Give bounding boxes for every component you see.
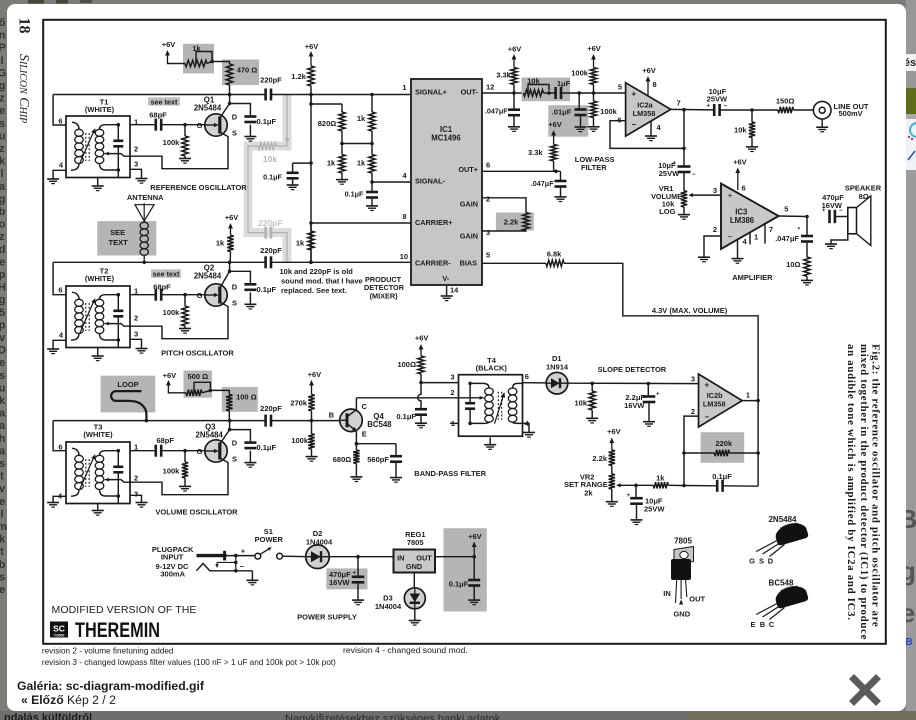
resistor 3.3k (511, 68, 517, 85)
secondary tap (105, 478, 109, 482)
grey highlight box: 100 ohm mod (222, 387, 258, 412)
svg-text:o: o (0, 219, 6, 231)
wire 1.2k to rail (310, 86, 312, 95)
svg-text:6: 6 (58, 442, 62, 451)
svg-text:D: D (0, 345, 6, 357)
svg-text:BAND-PASS FILTER: BAND-PASS FILTER (414, 469, 486, 478)
resistor 10k (slope) (591, 383, 593, 391)
svg-text:68pF: 68pF (156, 436, 174, 445)
potentiometer VR2 2k (609, 474, 615, 489)
svg-text:d: d (0, 244, 5, 256)
svg-text:BC548: BC548 (367, 420, 392, 429)
svg-text:(MIXER): (MIXER) (370, 291, 399, 300)
resistor 6.8k (546, 260, 564, 266)
svg-text:h: h (0, 433, 6, 445)
svg-text:B: B (905, 637, 912, 648)
core (dashed) (85, 133, 87, 161)
VR2 wiper (619, 484, 636, 486)
ground (10k) (746, 146, 758, 148)
svg-text:IN: IN (397, 553, 404, 562)
svg-text:a: a (0, 445, 6, 457)
ground (0.1uF Q1) (244, 136, 256, 138)
capacitor 560pF (395, 444, 397, 457)
wire out+ (pin6) (482, 170, 561, 172)
svg-text:POWER SUPPLY: POWER SUPPLY (297, 613, 357, 622)
magazine name Silicon Chip (16, 54, 31, 123)
svg-text:+6V: +6V (548, 120, 562, 129)
resistor 820 ohm (341, 104, 343, 112)
svg-text:E: E (362, 430, 367, 439)
svg-text:k: k (0, 156, 6, 168)
wire 100ohm to T4 pin3 (421, 382, 459, 384)
svg-text:2N5484: 2N5484 (194, 272, 222, 281)
svg-text:AMPLIFIER: AMPLIFIER (732, 273, 773, 282)
capacitor 68pF (pitch) (155, 289, 158, 301)
svg-text:0.1μF: 0.1μF (396, 412, 416, 421)
transistor Q1 2N5484 (205, 114, 227, 136)
svg-text:GND: GND (673, 610, 690, 619)
IC1 MC1496 product detector (411, 79, 482, 285)
wire Q2 drain (220, 271, 230, 288)
ground (0.1uF Q2) (244, 303, 256, 305)
capacitor 0.1uF (feedback) (684, 485, 717, 487)
svg-text:g: g (0, 80, 5, 92)
svg-text:Nagykifizetésekhez szükséges b: Nagykifizetésekhez szükséges banki adato… (285, 713, 501, 720)
svg-text:470 Ω: 470 Ω (237, 66, 258, 75)
svg-text:.047μF: .047μF (485, 107, 508, 116)
svg-text:k: k (0, 395, 6, 407)
wire T3 pin1 to 68pF (130, 450, 156, 452)
svg-text:t: t (0, 471, 4, 483)
wire T1 pin1 to 68pF (130, 124, 156, 126)
resistor 100k (Q2 gate) (184, 295, 186, 306)
wire REG1 out to +6V (435, 556, 474, 558)
wire T4 pin6 to D1 (523, 382, 547, 384)
svg-text:−: − (692, 172, 696, 178)
pot 10k (lowpass mod) (524, 90, 544, 96)
resistor 100k (vol divider) (311, 421, 313, 434)
wire rail drop to T1 pin6 (53, 95, 66, 126)
transistor Q3 2N5484 (205, 440, 227, 462)
capacitor 2.2uF 16VW (647, 384, 649, 397)
svg-text:+: + (241, 546, 246, 555)
svg-text:C: C (362, 402, 368, 411)
svg-text:68pF: 68pF (153, 282, 171, 291)
diode D1 1N914 (546, 372, 568, 394)
wire Q4 emitter (355, 431, 357, 444)
svg-text:OUT-: OUT- (461, 88, 479, 97)
wire out- (pin12) rail (482, 92, 522, 94)
winding (95, 299, 104, 306)
winding (75, 299, 84, 306)
ground (100k vol) (306, 456, 318, 458)
svg-text:revision 2 - volume finetuning: revision 2 - volume finetuning added (42, 647, 174, 656)
ghost capacitor 220pF (old) (264, 227, 267, 239)
pin 4 ground (737, 239, 739, 258)
svg-text:3: 3 (134, 159, 138, 168)
svg-text:SLOPE DETECTOR: SLOPE DETECTOR (598, 365, 667, 374)
pin 5 output wire (779, 215, 807, 218)
capacitor 0.1uF (Q1 drain) (244, 115, 256, 118)
core (dashed) (85, 303, 87, 331)
wire T1 bottom ground (97, 178, 99, 187)
node carrier- (309, 261, 313, 265)
ground (100k Q3) (179, 485, 191, 487)
svg-text:220pF: 220pF (260, 246, 282, 255)
wire drop to T2 pin 6 (53, 262, 66, 294)
tuning slug arrow (80, 130, 95, 163)
wire 68pF to gate Q1 (161, 124, 205, 126)
svg-text:68pF: 68pF (149, 110, 167, 119)
diode D2 1N4004 (306, 545, 330, 569)
svg-text:l: l (0, 168, 3, 180)
svg-text:IN: IN (663, 589, 671, 598)
ground (speaker) (831, 234, 848, 244)
capacitor 1uF (554, 87, 557, 99)
wire plug - (236, 570, 253, 572)
ground (1k) (336, 179, 348, 181)
op-amp IC2a LM358 (626, 83, 671, 136)
ground (0.1uF) (366, 205, 378, 207)
regulator REG1 7805 (394, 550, 436, 573)
SC logo (50, 622, 68, 638)
svg-text:g: g (0, 193, 5, 205)
svg-text:100 Ω: 100 Ω (236, 392, 257, 401)
node gate/100k (183, 449, 187, 453)
7805 TO-220 package (674, 547, 694, 565)
svg-text:16VW: 16VW (329, 578, 350, 587)
ghost junction dot (285, 138, 289, 142)
svg-text:0.1μF: 0.1μF (449, 580, 469, 589)
svg-text:2.2k: 2.2k (504, 218, 519, 227)
transistor Q4 BC548 (340, 409, 363, 432)
svg-text:1.2k: 1.2k (291, 72, 306, 81)
wire bias pin5 (482, 262, 546, 264)
svg-text:220k: 220k (715, 439, 733, 448)
ground (10k slope) (586, 417, 598, 419)
svg-text:p: p (0, 269, 6, 281)
svg-text:S: S (232, 454, 237, 463)
wire to speaker (835, 216, 848, 218)
wire T2 pin4 to ground (53, 340, 66, 349)
svg-text:(WHITE): (WHITE) (85, 274, 115, 283)
wire output vertical (757, 401, 759, 487)
secondary tap (105, 152, 109, 156)
svg-text:0.1μF: 0.1μF (345, 190, 364, 199)
bottom strip webpage fragments (0, 711, 916, 720)
svg-text:8: 8 (653, 80, 657, 89)
svg-text:b: b (0, 206, 6, 218)
svg-text:7805: 7805 (407, 538, 424, 547)
wire mid node (342, 143, 372, 145)
svg-text:10k and 220pF is old: 10k and 220pF is old (280, 267, 354, 276)
svg-text:2: 2 (486, 195, 490, 204)
svg-text:1N4004: 1N4004 (375, 602, 402, 611)
capacitor 0.1uF (out) (473, 557, 475, 580)
svg-text:+6V: +6V (305, 42, 319, 51)
capacitor .047uF (out+) (560, 171, 562, 181)
svg-text:+: + (353, 571, 357, 577)
wire signal- (372, 181, 411, 183)
wire inverting input loop (684, 416, 699, 485)
wire T4 bottom ground (489, 437, 491, 444)
VR1 wiper (692, 194, 722, 196)
capacitor 0.1uF (bandpass) (415, 408, 427, 411)
svg-text:D: D (768, 557, 774, 566)
svg-text:6: 6 (58, 285, 62, 294)
svg-text:+6V: +6V (225, 213, 239, 222)
svg-text:I: I (0, 55, 3, 67)
plug internal link (235, 556, 237, 571)
tuning slug arrow (80, 456, 95, 489)
wire plug + (227, 555, 255, 557)
svg-text:SIGNAL+: SIGNAL+ (415, 88, 447, 97)
resistor 100k (Q1 gate) (184, 125, 186, 136)
antenna symbol (135, 205, 154, 221)
node 470/rail (228, 93, 232, 97)
svg-text:v: v (0, 332, 6, 344)
resistor 100k (top) (590, 68, 596, 85)
plug tip bar (197, 554, 227, 557)
ground (470uF) (352, 599, 364, 601)
wire IC2a output (671, 108, 714, 111)
svg-text:mixed together in the product: mixed together in the product detector (… (858, 344, 870, 640)
svg-text:a: a (0, 420, 6, 432)
svg-text:Galéria: sc-diagram-modified.g: Galéria: sc-diagram-modified.gif (17, 679, 205, 693)
svg-text:t: t (0, 546, 4, 558)
ground (.01uF) (575, 126, 587, 128)
svg-text:ANTENNA: ANTENNA (127, 193, 164, 202)
secondary tap (105, 322, 109, 326)
svg-text:1: 1 (134, 442, 138, 451)
winding leads (72, 292, 79, 299)
wire Q1 drain to 0.1uF (230, 104, 251, 117)
svg-text:1: 1 (402, 83, 406, 92)
transformer T2 (66, 286, 130, 348)
svg-text:25VW: 25VW (707, 95, 728, 104)
svg-text:10k: 10k (263, 154, 277, 164)
svg-text:u: u (0, 130, 5, 142)
svg-text:s: s (0, 370, 5, 382)
resistor 500 ohm (mod) (186, 390, 202, 396)
wire 4.3V max volume (564, 263, 758, 400)
svg-text:SEE: SEE (110, 228, 125, 237)
svg-text:C: C (769, 620, 775, 629)
svg-text:+6V: +6V (642, 66, 656, 75)
svg-text:4.3V (MAX. VOLUME): 4.3V (MAX. VOLUME) (652, 306, 728, 315)
pin 1 stub (749, 232, 751, 244)
svg-text:+6V: +6V (587, 44, 601, 53)
svg-text:7: 7 (769, 225, 773, 234)
svg-text:+6V: +6V (162, 40, 176, 49)
wire T3 pin3 to ground (130, 495, 142, 502)
svg-text:z: z (0, 231, 5, 243)
svg-text:0.1μF: 0.1μF (712, 472, 732, 481)
ground (680) (350, 476, 362, 478)
resistor 1k (slope out) (636, 484, 654, 486)
wire carrier+ (311, 222, 411, 224)
grey highlight box: 220k mod (701, 432, 745, 463)
svg-text:MODIFIED VERSION OF THE: MODIFIED VERSION OF THE (52, 604, 197, 616)
wire Q3 drain to 0.1uF (230, 430, 251, 443)
right strip webpage fragments (906, 0, 916, 56)
grey highlight box: 1k trimmer mod (183, 44, 214, 74)
svg-text:+: + (626, 493, 630, 499)
capacitor 470uF 16VW (357, 557, 359, 577)
svg-text:.047μF: .047μF (775, 234, 799, 243)
svg-text:−: − (705, 413, 710, 422)
svg-text:1k: 1k (216, 239, 225, 248)
svg-text:+: + (632, 89, 637, 98)
svg-text:S: S (759, 557, 764, 566)
svg-text:3: 3 (134, 489, 138, 498)
wire hop over collector (418, 383, 421, 410)
svg-text:REFERENCE OSCILLATOR: REFERENCE OSCILLATOR (150, 183, 247, 192)
svg-text:e: e (0, 584, 5, 596)
pin 14 / V- ground (446, 285, 448, 296)
wire to 1uF (544, 92, 556, 94)
capacitor .01uF (mod) (578, 93, 580, 110)
svg-text:2: 2 (134, 313, 138, 322)
wire emitter to 560pF (356, 443, 396, 445)
svg-text:VOLUME OSCILLATOR: VOLUME OSCILLATOR (155, 508, 238, 517)
grey highlight box: 500 ohm mod (184, 371, 213, 398)
svg-text:e: e (0, 496, 5, 508)
wire Q3 drain (220, 430, 230, 444)
core (dashed) (85, 459, 87, 487)
wire S1 to D2 (283, 555, 306, 557)
svg-text:100k: 100k (600, 107, 618, 116)
svg-text:THEREMIN: THEREMIN (75, 618, 160, 642)
svg-text:−: − (240, 562, 245, 571)
svg-text:a: a (0, 408, 6, 420)
svg-text:SC: SC (53, 624, 65, 634)
schematic border frame (43, 20, 886, 644)
ground (VR1) (683, 207, 685, 215)
capacitor 220pF (vol coupling) (264, 415, 267, 427)
pin 4 ground (650, 121, 652, 136)
ground (.047uF out+) (555, 196, 567, 198)
svg-text:e: e (0, 357, 5, 369)
svg-text:3: 3 (713, 186, 717, 195)
ground (connector) (821, 119, 823, 127)
wire signal+ rail (53, 94, 265, 96)
svg-text:3: 3 (691, 375, 695, 384)
svg-text:6.8k: 6.8k (547, 250, 562, 259)
ground (10 ohm) (801, 279, 813, 281)
svg-text:INPUT: INPUT (161, 552, 184, 561)
svg-text:GND: GND (406, 562, 422, 571)
svg-text:OUT: OUT (416, 553, 432, 562)
capacitor 0.1uF (signal-) (371, 182, 373, 192)
svg-text:5: 5 (784, 204, 788, 213)
svg-text:e: e (0, 256, 5, 268)
node 270k/rail (310, 419, 314, 423)
ground (10uF VR2) (631, 519, 643, 521)
ground (2.2uF) (643, 421, 655, 423)
wire 1k to 470 (207, 62, 230, 65)
svg-text:1k: 1k (656, 473, 665, 482)
ground (100k) (588, 126, 600, 128)
svg-text:z: z (0, 93, 5, 105)
wire T2 pin1 to 68pF (130, 294, 156, 296)
wire T4 pin1 stub (450, 422, 459, 424)
svg-text:BIAS: BIAS (460, 259, 478, 268)
transformer T4 (459, 375, 523, 437)
svg-text:+: + (706, 104, 710, 110)
wire Q3 source (130, 458, 228, 495)
grey highlight box: see text T1 (148, 97, 180, 105)
svg-text:E: E (750, 620, 755, 629)
wire 1k right top (371, 95, 373, 113)
transformer T1 (66, 116, 130, 178)
node gate/100k (183, 123, 187, 127)
tuning slug arrow (80, 300, 95, 333)
wire T1 pin3 to ground (130, 169, 142, 178)
svg-text:2N5484: 2N5484 (194, 104, 222, 113)
svg-text:8Ω: 8Ω (859, 192, 869, 201)
svg-text:500mV: 500mV (839, 109, 863, 118)
wire cap to VR1 (683, 173, 685, 191)
wire to connector (794, 109, 814, 111)
resistor 100k (Q3 gate) (184, 451, 186, 462)
speaker (848, 208, 857, 234)
wire collector to T4 pin2 (356, 397, 458, 399)
close button X (852, 677, 879, 704)
transistor Q2 2N5484 (205, 284, 227, 306)
svg-text:ő: ő (0, 17, 6, 29)
svg-text:POWER: POWER (255, 535, 284, 544)
grey highlight box: 470uF 16VW mod (326, 568, 367, 589)
svg-text:3: 3 (134, 329, 138, 338)
svg-text:25VW: 25VW (644, 505, 665, 514)
svg-text:D: D (232, 438, 238, 447)
winding (75, 455, 84, 462)
svg-text:H: H (0, 282, 6, 294)
svg-text:220pF: 220pF (260, 404, 282, 413)
svg-text:7805: 7805 (674, 537, 692, 546)
svg-text:p: p (0, 319, 6, 331)
svg-text:(WHITE): (WHITE) (85, 105, 115, 114)
svg-text:G: G (0, 67, 6, 79)
svg-text:+6V: +6V (415, 334, 429, 343)
svg-text:500 Ω: 500 Ω (187, 372, 208, 381)
winding leads (72, 122, 79, 129)
page number 18 (16, 18, 33, 34)
svg-text:GAIN: GAIN (460, 232, 478, 241)
plug sleeve (196, 564, 235, 571)
svg-text:3: 3 (486, 228, 490, 237)
svg-text:G: G (197, 291, 203, 300)
svg-text:1: 1 (746, 391, 750, 400)
svg-text:16VW: 16VW (624, 401, 645, 410)
svg-text:6: 6 (525, 372, 529, 381)
svg-text:z: z (0, 143, 5, 155)
grey highlight box: SEE TEXT antenna (97, 221, 156, 255)
svg-text:s: s (0, 118, 5, 130)
resistor 2.2k (523, 213, 529, 231)
wire to 0.1uF decoupler (293, 162, 311, 164)
svg-text:see text: see text (151, 97, 178, 106)
capacitor 68pF (vol) (155, 445, 158, 457)
resistor 270k (308, 394, 314, 410)
svg-text:2: 2 (691, 407, 695, 416)
svg-text:G: G (749, 557, 755, 566)
diode D3 1N4004 (reverse protection) (404, 588, 425, 609)
internal capacitor (117, 125, 119, 141)
svg-text:CARRIER-: CARRIER- (415, 259, 451, 268)
wire +6V to 1k (168, 62, 186, 64)
